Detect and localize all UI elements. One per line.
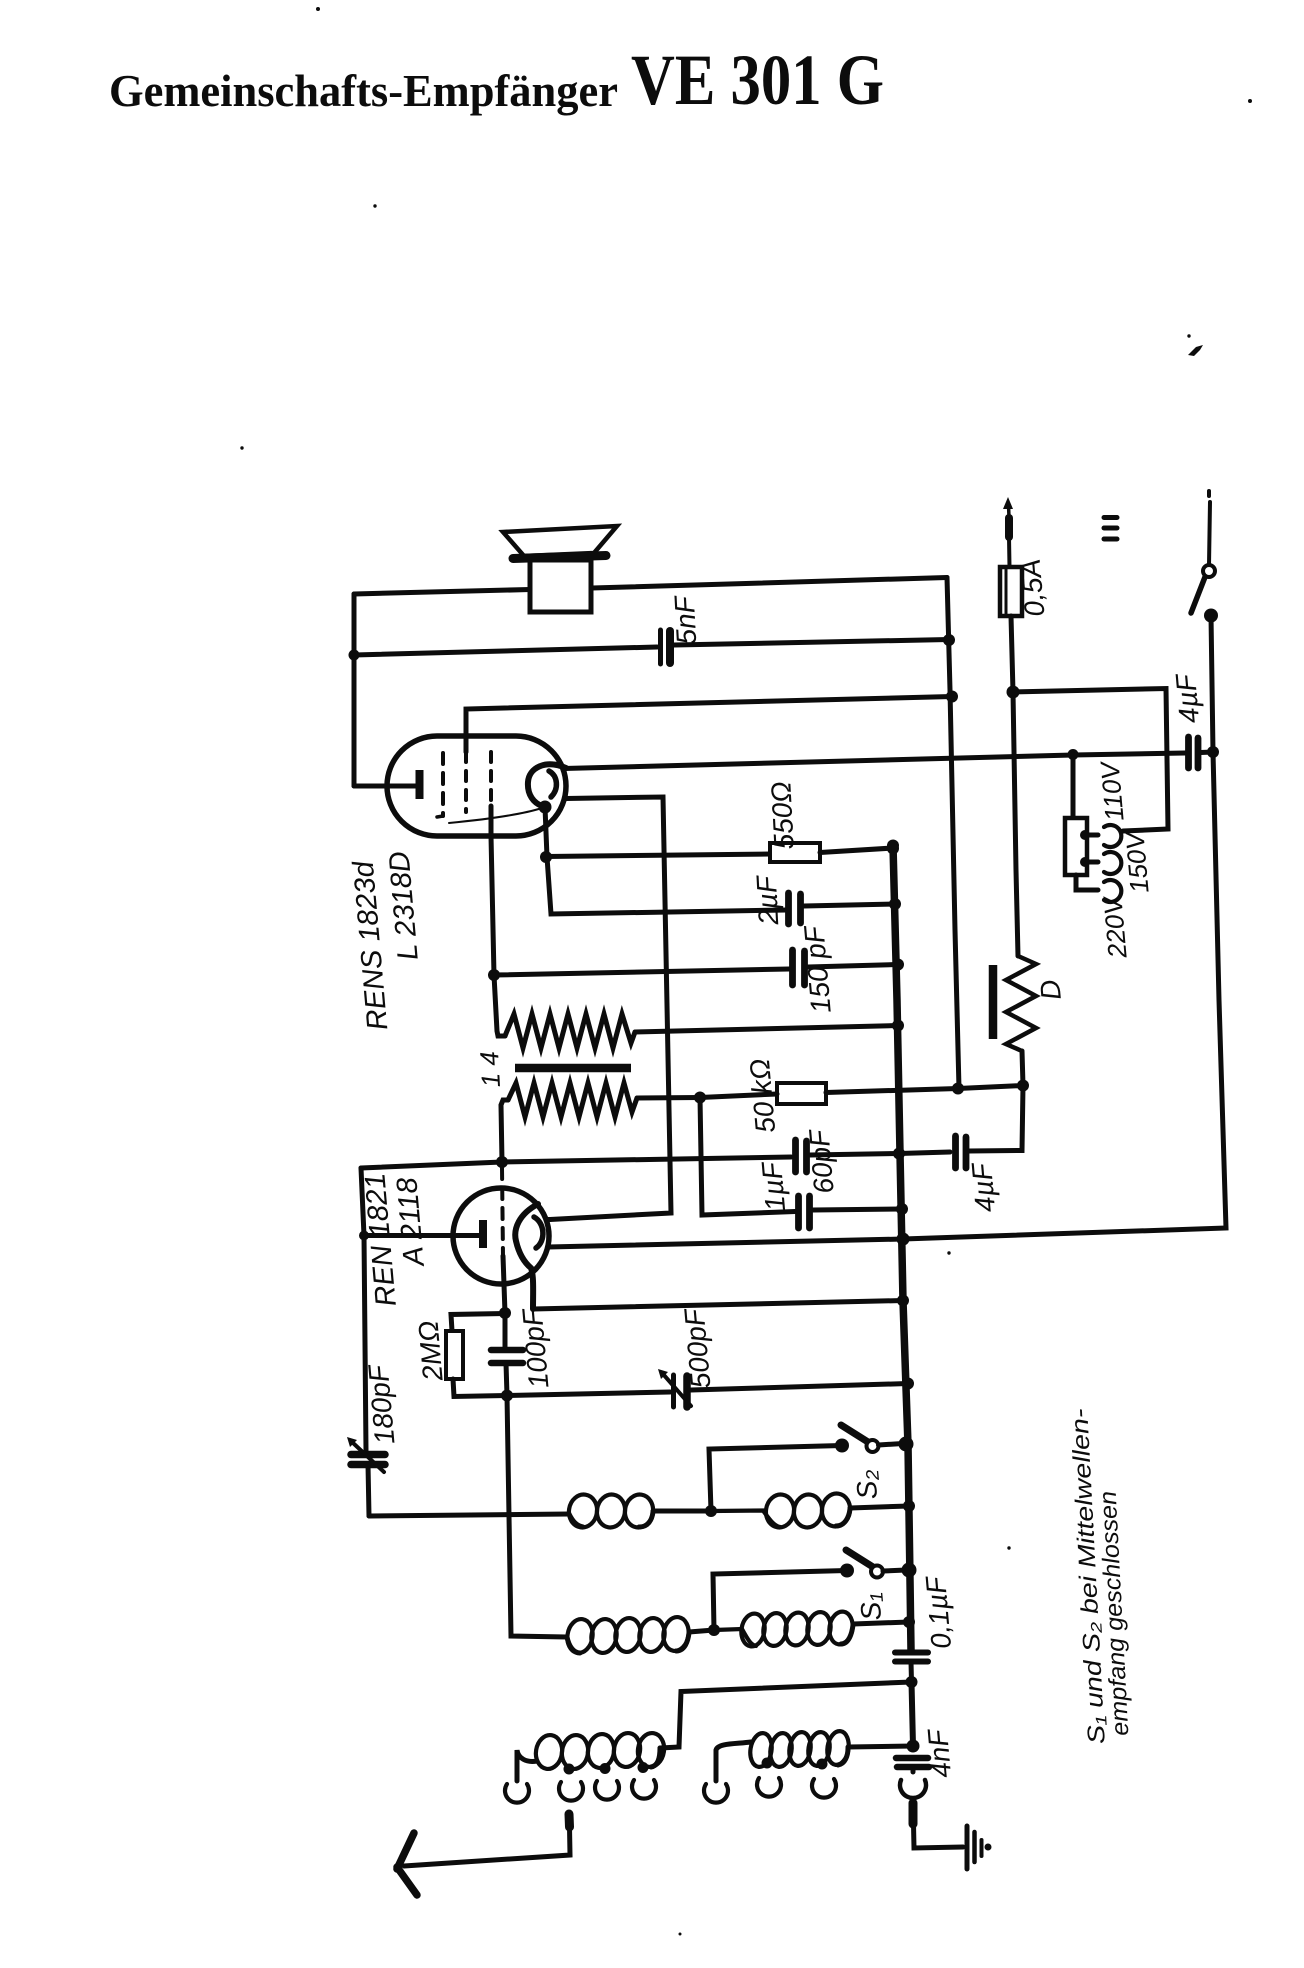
wire plug to ground bbox=[914, 1824, 964, 1848]
transformer T1 primary winding bbox=[494, 975, 898, 1048]
svg-text:2MΩ: 2MΩ bbox=[412, 1319, 448, 1383]
capacitor 150pF bbox=[494, 950, 897, 985]
svg-text:2µF: 2µF bbox=[751, 873, 785, 926]
wire fuse node down to D bbox=[1013, 692, 1018, 956]
capacitor 4uF lower bbox=[899, 1086, 1023, 1169]
svg-text:220V: 220V bbox=[1097, 894, 1132, 961]
L4 tap nodes bbox=[762, 1758, 773, 1769]
switch S1 to rail bbox=[883, 1570, 906, 1571]
resistor 550 ohm bbox=[546, 843, 893, 862]
wire U1 anode long line to right bbox=[564, 753, 1185, 769]
socket hook D bbox=[632, 1780, 656, 1799]
node cathode T-junction bbox=[359, 1231, 369, 1241]
socket 110V bbox=[1104, 825, 1121, 847]
svg-text:1 4: 1 4 bbox=[474, 1051, 506, 1089]
inductor L3 antenna coil bbox=[517, 1731, 666, 1781]
wire U2 lower lead to long rail bbox=[548, 1239, 903, 1247]
node grid-leak bottom bbox=[501, 1390, 513, 1402]
switch S2 pivot bbox=[867, 1440, 879, 1452]
capacitor 180pF variable bbox=[347, 1437, 385, 1516]
inductor L1b bbox=[711, 1492, 852, 1530]
grid dashes U1 g2 bbox=[464, 752, 468, 812]
svg-text:D: D bbox=[1034, 978, 1067, 1001]
transformer T1 secondary winding bbox=[501, 1083, 700, 1162]
wire rail to antenna coil L3 bbox=[660, 1682, 912, 1748]
wire U1 cathode drop to 550 ohm bbox=[545, 807, 547, 857]
switch S2 contact bbox=[835, 1439, 849, 1453]
node 50k-right rail bbox=[952, 1083, 964, 1095]
svg-text:60pF: 60pF bbox=[803, 1127, 840, 1195]
wire L4 to rail bbox=[848, 1746, 913, 1747]
switch S1 contact bbox=[840, 1564, 854, 1578]
antenna symbol bbox=[397, 1833, 417, 1895]
wire U1 bottom exit to node bbox=[491, 806, 494, 975]
rail nodes bbox=[887, 840, 899, 852]
wire 180pF to coil L1a bbox=[369, 1514, 569, 1516]
grid dashes U1 g3 bbox=[489, 752, 493, 806]
capacitor 4uF smoothing top bbox=[1189, 737, 1214, 768]
wire L2a to junction bbox=[689, 1630, 714, 1632]
node junction 5nF-left bbox=[349, 650, 360, 661]
node L2 tap bbox=[708, 1624, 720, 1636]
svg-text:4µF: 4µF bbox=[966, 1160, 1001, 1213]
node anode-inner U1 bbox=[539, 801, 552, 814]
wire U2 arc tail to rail bbox=[533, 1301, 903, 1310]
svg-text:180pF: 180pF bbox=[362, 1362, 400, 1446]
plug pin antenna bbox=[565, 1814, 575, 1827]
wire to 2uF line bbox=[547, 857, 787, 914]
socket hook C bbox=[595, 1781, 619, 1800]
wire fuse to selector bbox=[1013, 689, 1168, 832]
capacitor 2uF bbox=[789, 893, 894, 924]
anode arc U1 bbox=[528, 764, 566, 806]
resistor 50 kOhm bbox=[700, 1083, 1023, 1104]
svg-text:5nF: 5nF bbox=[669, 594, 703, 646]
svg-text:4µF: 4µF bbox=[1170, 671, 1205, 724]
capacitor 0.1uF bbox=[895, 1653, 928, 1683]
scan speck dots bbox=[240, 7, 1252, 1936]
svg-text:S₂: S₂ bbox=[850, 1469, 883, 1501]
cathode lead U2 bbox=[364, 1233, 479, 1238]
socket hook G bbox=[812, 1779, 836, 1798]
wire U2 anode lead (to RENS screen drop) bbox=[548, 1217, 550, 1222]
node L1 tap bbox=[705, 1505, 717, 1517]
switch S2 lever bbox=[841, 1425, 868, 1442]
node 50k-left bbox=[694, 1092, 706, 1104]
svg-text:100pF: 100pF bbox=[516, 1306, 554, 1390]
switch S1 lever bbox=[846, 1550, 873, 1567]
wire U1 grid to top bbox=[466, 697, 952, 753]
wire speaker left to left rail bbox=[354, 590, 530, 595]
svg-text:110V: 110V bbox=[1094, 759, 1129, 823]
svg-text:500pF: 500pF bbox=[678, 1306, 716, 1390]
node grid-wire junction bbox=[946, 691, 958, 703]
fuse 0,5A with mains pin bbox=[1000, 497, 1022, 692]
node D-bottom bbox=[1017, 1080, 1029, 1092]
svg-text:A 2118: A 2118 bbox=[391, 1176, 431, 1269]
wire speaker right to top-right corner bbox=[592, 578, 947, 589]
inductor L1a bbox=[567, 1493, 656, 1530]
speaker LS bbox=[503, 526, 617, 612]
capacitor 60pF bbox=[361, 1140, 899, 1172]
mains plug dashes bbox=[1104, 518, 1117, 540]
resistor 2 MOhm bbox=[446, 1314, 507, 1397]
wire cathode lead RENS bbox=[354, 784, 416, 789]
plug pin ground bbox=[909, 1803, 918, 1824]
capacitor 5nF bbox=[354, 630, 949, 664]
inductor L2b bbox=[714, 1610, 855, 1648]
wire U1 screen lead down-right bbox=[550, 797, 671, 1220]
screen arc U2 bbox=[534, 1217, 543, 1248]
socket 220V bbox=[1104, 880, 1121, 902]
wire L1a to junction bbox=[653, 1509, 711, 1514]
cathode bar U2 bbox=[479, 1220, 487, 1248]
node grid-leak top bbox=[499, 1307, 511, 1319]
grid dashes U2 bbox=[502, 1168, 503, 1256]
screen arc U1 bbox=[549, 771, 556, 797]
main rail (chassis bus) bbox=[893, 846, 911, 1651]
svg-text:0,5A: 0,5A bbox=[1015, 558, 1051, 618]
capacitor 4nF bbox=[896, 1758, 929, 1772]
socket hook B bbox=[559, 1782, 583, 1801]
capacitor 500pF variable bbox=[507, 1369, 908, 1407]
wire grid-leak net down to L2a bbox=[507, 1396, 567, 1638]
switch S1 pivot bbox=[871, 1566, 883, 1578]
wire left rail vertical bbox=[352, 594, 357, 786]
socket hook ground jack bbox=[900, 1780, 926, 1798]
tube U1 RENS 1823d output pentode bbox=[387, 736, 566, 836]
switch S2 wire bbox=[709, 1446, 842, 1512]
rail below 0.1uF bbox=[912, 1682, 914, 1746]
resistor D (barretter) bbox=[993, 956, 1036, 1086]
svg-text:VE 301 G: VE 301 G bbox=[631, 40, 884, 120]
svg-text:S₁: S₁ bbox=[854, 1592, 887, 1622]
mains switch top right bbox=[1191, 491, 1218, 623]
svg-text:50 kΩ: 50 kΩ bbox=[744, 1058, 781, 1135]
switch S1 wire bbox=[713, 1571, 847, 1631]
socket hook F bbox=[757, 1778, 781, 1797]
anode arc U2 bbox=[515, 1204, 538, 1309]
node voltage-selector feed bbox=[1068, 749, 1079, 760]
socket hook E bbox=[704, 1784, 728, 1803]
node right rail 4uF bbox=[1207, 746, 1219, 758]
socket 150V bbox=[1104, 852, 1121, 874]
capacitor 1uF bbox=[700, 1098, 902, 1229]
voltage selector bbox=[1065, 755, 1098, 891]
wire right drop (speaker net vertical) bbox=[947, 578, 959, 1089]
inductor L4 antenna coil 2 bbox=[716, 1730, 851, 1781]
svg-text:550Ω: 550Ω bbox=[765, 781, 800, 851]
wire left column down from 60pF corner bbox=[361, 1168, 366, 1451]
grid dashes U1 g1 bbox=[441, 753, 445, 816]
right vertical rail bbox=[903, 616, 1226, 1240]
wire L2b to rail bbox=[853, 1622, 909, 1624]
ground symbol bbox=[967, 1826, 992, 1869]
filament wire U1 bbox=[449, 808, 542, 823]
svg-text:Gemeinschafts-Empfänger: Gemeinschafts-Empfänger bbox=[109, 66, 618, 116]
node 5nF-right bbox=[943, 634, 955, 646]
wire U2 grid down bbox=[503, 1256, 505, 1313]
transformer T1 core bbox=[515, 1064, 631, 1073]
svg-text:L 2318D: L 2318D bbox=[383, 850, 424, 962]
inductor L2a bbox=[565, 1615, 691, 1654]
svg-text:4nF: 4nF bbox=[922, 1727, 957, 1780]
wire antenna lead bbox=[404, 1827, 570, 1866]
svg-text:150 pF: 150 pF bbox=[798, 923, 837, 1014]
node 550-left bbox=[540, 851, 552, 863]
svg-text:0,1µF: 0,1µF bbox=[920, 1574, 957, 1650]
wire L1b to rail bbox=[850, 1506, 909, 1508]
capacitor 100pF bbox=[491, 1313, 523, 1396]
tube U2 REN 1821 triode bbox=[364, 1168, 549, 1309]
svg-text:1µF: 1µF bbox=[756, 1159, 791, 1212]
node screen-bypass junction bbox=[488, 969, 500, 981]
node T1-sec to grid bbox=[496, 1156, 508, 1168]
node fuse bottom bbox=[1007, 686, 1020, 699]
switch S2 to rail bbox=[879, 1444, 904, 1446]
socket hook A bbox=[505, 1784, 529, 1803]
svg-text:150V: 150V bbox=[1119, 829, 1154, 895]
L3 tap nodes bbox=[564, 1764, 575, 1775]
cathode bar U1 bbox=[416, 770, 424, 799]
